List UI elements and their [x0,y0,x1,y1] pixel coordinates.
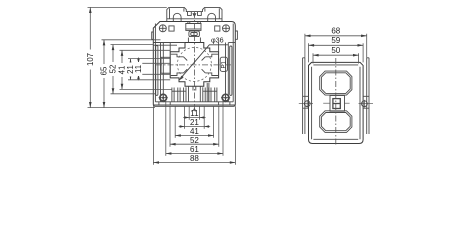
bracket notch blocks [188,12,202,16]
window corner steps [171,54,218,75]
right slot [230,46,232,95]
svg-text:68: 68 [331,27,340,36]
arrows 107 [89,7,92,13]
right ear [363,96,369,108]
dim line 59 [309,44,364,46]
bottom flange lines [153,102,235,105]
ext 41 top [120,49,171,51]
svg-text:88: 88 [190,154,199,163]
window inner corner chamfers [184,57,206,73]
side centerline [335,58,337,146]
ext 65 top [102,39,161,41]
labels left [86,53,143,75]
side body top-left chamfer [309,62,312,65]
arrows 50 [313,54,319,57]
ext 41b [174,106,176,138]
ext 61 [165,101,167,156]
arrows 59 [309,44,315,47]
leader d36 [179,45,228,81]
bracket tab inner walls [170,8,220,19]
ext 21 top [128,58,170,60]
side dims [305,34,367,64]
dashed circle d36 [177,47,211,81]
svg-text:107: 107 [86,53,95,66]
svg-text:11: 11 [190,109,199,118]
dim line 107 [89,7,91,107]
terminal lower box [189,31,200,36]
arrows 11 outside [137,58,140,63]
lower octagon [320,111,352,133]
ext 68 [305,34,367,58]
ext 50 [313,53,359,63]
top right screw [223,25,230,32]
svg-text:65: 65 [100,66,109,75]
arrows 41 [121,50,124,56]
stepped window cross [170,43,218,87]
window wall upper extensions [170,42,218,52]
bracket left arch [173,13,181,21]
side rails left [303,58,305,134]
bracket center mark triangle [192,13,196,17]
ext 11 top [136,62,171,64]
top terminal block [186,24,201,31]
dim line 21 [130,59,132,80]
left ear [303,96,309,108]
svg-text:50: 50 [331,46,340,55]
dim line 21b (arrows outside) [179,126,211,128]
dim line 52 [112,45,114,94]
arrows 21b outside [180,125,185,128]
dim line 68 [305,35,367,37]
top left screw [159,25,166,32]
left slot [156,46,158,96]
bottom screw left [160,94,167,101]
arrows 88b [153,161,159,164]
label backing rects [87,50,143,79]
ext 52b [169,106,171,147]
dim line 52b [170,143,219,145]
mounting bracket top [167,7,222,21]
ext 52 top [111,44,154,46]
bottom center notch [189,83,209,102]
window step lines left [153,43,185,46]
dim line 11 (arrows outside) [138,58,140,81]
dim line 61b [166,153,223,155]
P1 label plate [220,57,227,71]
window step lines right [229,42,236,44]
svg-text:11: 11 [134,65,143,73]
labels side [331,27,340,55]
right edge tab [235,31,237,39]
arrows 11b outside [184,116,189,119]
left channel [161,43,164,102]
ext top 107 [88,6,167,8]
svg-text:52: 52 [109,65,118,74]
dim line 41 [121,50,123,89]
bracket base line [167,18,222,20]
body inner left line [154,24,156,102]
center square [330,96,345,112]
dim line 11b (arrows outside) [183,117,205,119]
bottom screw right [222,94,229,101]
svg-text:52: 52 [190,136,199,145]
ext 41 bottom [120,88,172,90]
bracket right arch [208,13,216,21]
dim line 65 [103,40,105,108]
left terminal box [161,57,170,73]
ext 11b [188,106,190,120]
front view body outline [153,22,235,107]
ext 88 [152,106,154,165]
svg-text:φ36: φ36 [211,36,224,45]
svg-text:21: 21 [190,118,199,127]
arrows 65 [103,40,106,46]
side rails right [367,58,369,134]
ext 52 bottom [111,93,156,95]
arrows 68 [305,35,311,38]
bottom fins right [203,87,217,102]
dim line 50 [313,54,359,56]
top left square [169,26,174,31]
center square side ticks [323,102,349,104]
arrows 61b [166,152,172,155]
svg-text:41: 41 [190,127,199,136]
labels bottom [190,109,199,163]
centerlines front view [156,12,233,112]
arrows 21 [129,59,132,65]
arrows 41b [175,134,181,137]
ext 21 bottom [128,79,170,81]
side inner face [312,65,360,139]
dim line 41b [175,135,213,137]
right channel [226,43,229,102]
svg-text:59: 59 [331,36,340,45]
svg-text:P1: P1 [222,60,228,68]
svg-text:61: 61 [190,145,199,154]
bottom fins left [172,87,186,102]
ext 21b [184,106,186,129]
arrows 52b [170,143,176,146]
ext 59 [309,43,364,62]
top right square [215,26,220,31]
arrows 52 [112,45,115,51]
ext bottom 107/65 [88,107,156,109]
body inner right line [232,24,234,102]
ext 11 bottom [136,73,171,75]
left edge tab [152,32,154,39]
side body outline [309,62,364,143]
bottom center mark [193,107,196,111]
dim line 88b [153,162,235,164]
top arm throat lines [188,38,200,43]
bottom screw pads [159,102,230,105]
upper octagon [320,71,352,95]
